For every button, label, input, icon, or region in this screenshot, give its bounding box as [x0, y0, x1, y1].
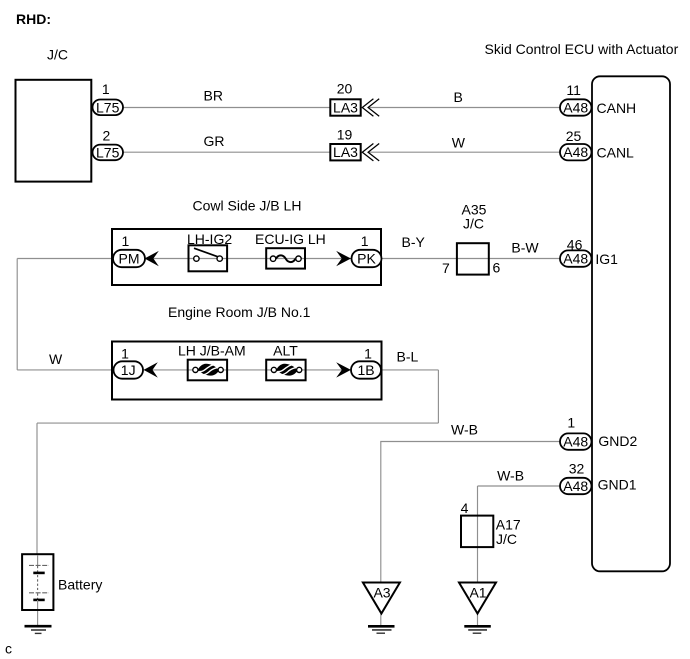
svg-text:1J: 1J	[121, 362, 136, 378]
fuse ECU-IG LH	[266, 248, 305, 268]
connector A48 pin 25 CANL	[560, 128, 634, 161]
wire A1 tip to ground	[477, 613, 479, 626]
svg-text:LA3: LA3	[333, 144, 358, 160]
svg-text:A48: A48	[563, 144, 588, 160]
svg-text:B-W: B-W	[511, 239, 539, 255]
arrow into PM (points left)	[145, 251, 159, 266]
arrow into 1J (points left)	[144, 362, 158, 377]
battery	[22, 554, 102, 610]
svg-text:CANL: CANL	[597, 145, 635, 161]
connector 1J pin 1	[114, 345, 144, 378]
svg-text:GR: GR	[204, 133, 225, 149]
connector A48 pin 32 GND1	[560, 461, 637, 495]
svg-text:B-Y: B-Y	[402, 234, 426, 250]
svg-text:A48: A48	[563, 100, 588, 116]
connector A48 pin 1 GND2	[560, 415, 638, 450]
svg-text:L75: L75	[96, 145, 120, 161]
svg-text:PK: PK	[357, 250, 376, 266]
svg-text:Engine Room J/B No.1: Engine Room J/B No.1	[168, 304, 311, 320]
connector LA3 pin 20	[330, 81, 379, 117]
arrow into 1B (points right)	[336, 362, 351, 377]
svg-text:6: 6	[493, 259, 501, 275]
svg-text:ECU-IG LH: ECU-IG LH	[255, 231, 326, 247]
svg-text:1: 1	[361, 233, 369, 249]
svg-text:W-B: W-B	[451, 421, 478, 437]
svg-text:RHD:: RHD:	[16, 11, 51, 27]
connector 1B pin 1	[351, 345, 381, 378]
svg-text:1: 1	[567, 415, 575, 431]
svg-text:W: W	[49, 351, 63, 367]
svg-text:LH J/B-AM: LH J/B-AM	[178, 342, 246, 358]
svg-text:GND2: GND2	[598, 433, 637, 449]
wire W-B GND1 horizontal	[478, 485, 561, 487]
ground A1	[459, 583, 496, 634]
svg-text:Skid Control ECU with Actuator: Skid Control ECU with Actuator	[485, 41, 679, 57]
wire A3 tip to ground	[380, 613, 382, 626]
wire BR (L75 to LA3) row1	[123, 107, 330, 109]
svg-text:46: 46	[567, 236, 583, 252]
connector PM pin 1	[113, 233, 145, 267]
svg-text:Battery: Battery	[58, 577, 102, 593]
svg-text:A3: A3	[373, 585, 390, 601]
fusible link ALT	[266, 360, 305, 381]
wire battery to ground	[37, 610, 39, 626]
svg-text:CANH: CANH	[597, 100, 637, 116]
wire B-L vertical drop	[437, 370, 439, 423]
svg-text:2: 2	[103, 127, 111, 143]
svg-text:L75: L75	[96, 99, 120, 115]
svg-text:25: 25	[566, 128, 582, 144]
svg-text:4: 4	[461, 500, 469, 516]
svg-text:20: 20	[337, 81, 353, 97]
svg-text:A48: A48	[563, 434, 588, 450]
wire B (LA3 to A48 CANH)	[369, 107, 560, 109]
Skid Control ECU with Actuator box	[592, 76, 670, 571]
svg-text:A1: A1	[469, 585, 486, 601]
svg-text:7: 7	[442, 260, 450, 276]
svg-text:1: 1	[364, 345, 372, 361]
wire W (LA3 to A48 CANL)	[369, 151, 560, 153]
wire W-B GND2 vertical to A3	[380, 442, 382, 583]
connector PK pin 1	[352, 233, 382, 267]
Engine Room J/B No.1 box	[112, 342, 382, 400]
wire W-B GND1 vertical to A1	[477, 486, 479, 583]
svg-text:IG1: IG1	[595, 251, 618, 267]
wire GR (L75 to LA3) row2	[123, 151, 330, 153]
svg-text:GND1: GND1	[598, 477, 637, 493]
svg-text:BR: BR	[204, 88, 223, 104]
wire left vertical node (PM to 1J)	[16, 259, 18, 370]
svg-text:A48: A48	[563, 478, 588, 494]
svg-text:11: 11	[566, 82, 581, 98]
fusible link LH J/B-AM	[188, 360, 227, 381]
svg-text:ALT: ALT	[273, 342, 298, 358]
junction connector J/C box	[16, 80, 92, 182]
svg-text:32: 32	[569, 461, 585, 477]
wire W-B GND2 horizontal	[380, 441, 560, 443]
svg-text:W: W	[452, 134, 466, 150]
wire battery vertical	[36, 423, 38, 555]
svg-text:B: B	[454, 89, 463, 105]
svg-text:W-B: W-B	[497, 467, 524, 483]
svg-text:1: 1	[121, 345, 129, 361]
junction connector A17	[461, 500, 521, 547]
svg-text:A48: A48	[563, 251, 588, 267]
connector A48 pin 46 IG1	[560, 236, 618, 266]
connector A48 pin 11 CANH	[560, 82, 636, 116]
junction connector A35	[442, 202, 500, 277]
svg-text:1: 1	[102, 81, 110, 97]
Cowl Side J/B LH box	[112, 229, 381, 285]
svg-text:Cowl Side J/B LH: Cowl Side J/B LH	[193, 197, 302, 213]
svg-text:LA3: LA3	[333, 99, 358, 115]
ground A3	[363, 583, 400, 634]
svg-text:19: 19	[337, 127, 353, 143]
switch LH-IG2	[189, 245, 228, 271]
connector L75 pin 2	[93, 127, 124, 160]
wire row4 W / B-L (left node through engine room J/B)	[17, 369, 438, 371]
svg-text:PM: PM	[119, 250, 140, 266]
svg-text:c: c	[5, 641, 12, 657]
svg-text:J/C: J/C	[47, 47, 68, 63]
ground battery	[25, 626, 52, 633]
svg-text:1B: 1B	[357, 362, 374, 378]
connector L75 pin 1	[93, 81, 124, 115]
svg-text:B-L: B-L	[397, 348, 419, 364]
svg-text:1: 1	[122, 233, 130, 249]
wire row3 B-Y/B-W (left node to A48 IG1)	[17, 258, 560, 260]
wire battery feed horizontal	[37, 422, 438, 424]
svg-text:J/C: J/C	[463, 215, 484, 231]
svg-text:J/C: J/C	[496, 531, 517, 547]
arrow into PK (points right)	[336, 251, 351, 266]
connector LA3 pin 19	[330, 127, 379, 161]
